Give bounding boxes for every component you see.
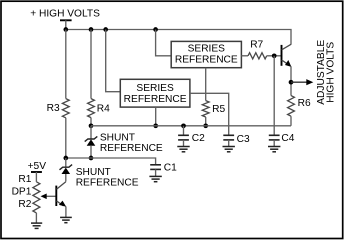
wiper arrow DP1 — [46, 195, 56, 197]
wire bus to series reference 1 — [156, 30, 172, 56]
diode D2 shunt reference — [60, 165, 73, 170]
transistor Q2 — [281, 45, 283, 66]
svg-text:SERIES: SERIES — [188, 43, 226, 54]
node R4-rail — [89, 123, 94, 128]
wire C4 to ground — [273, 140, 275, 146]
wire R7 to base node — [267, 55, 282, 57]
node D1-lower-rail — [89, 156, 94, 161]
wire D1 to lower rail — [90, 146, 92, 158]
svg-text:DP1: DP1 — [12, 186, 32, 197]
node R5-rail — [203, 123, 208, 128]
wire R6 to rail — [290, 116, 292, 126]
node C2-rail — [181, 123, 186, 128]
wire box2 right to C3 — [190, 93, 229, 135]
resistor R7 — [248, 53, 267, 59]
ground C4 — [268, 146, 280, 148]
wire lower rail — [66, 158, 156, 165]
svg-text:REFERENCE: REFERENCE — [100, 143, 163, 154]
node R3-lower-rail — [63, 156, 68, 161]
wire R3 to lower rail — [65, 118, 67, 158]
resistor R6 — [288, 96, 295, 117]
wire base node to C4 — [273, 56, 275, 135]
ground Q1 — [60, 216, 72, 218]
svg-text:+5V: +5V — [28, 161, 47, 172]
box U2 SERIES REFERENCE — [120, 79, 190, 107]
resistor R4 — [88, 99, 95, 118]
potentiometer DP1 body — [33, 182, 40, 213]
svg-text:C4: C4 — [281, 133, 294, 144]
wire C1 to ground — [155, 169, 157, 176]
capacitor C4 — [269, 134, 280, 136]
svg-text:R3: R3 — [47, 103, 60, 114]
arrow adjustable output — [291, 81, 308, 83]
ground C3 — [223, 146, 235, 148]
svg-text:HIGH VOLTS: HIGH VOLTS — [325, 42, 336, 103]
svg-text:REFERENCE: REFERENCE — [76, 178, 139, 189]
svg-text:REFERENCE: REFERENCE — [175, 54, 238, 65]
wire R4 to node — [90, 118, 92, 126]
node box2-rail — [153, 123, 158, 128]
svg-text:C1: C1 — [164, 162, 177, 173]
wire R5 to rail — [205, 117, 207, 126]
node output — [289, 80, 294, 85]
svg-text:+ HIGH VOLTS: + HIGH VOLTS — [30, 8, 100, 19]
resistor R3 — [62, 99, 69, 118]
wire box1 to R5 — [205, 68, 207, 101]
terminal bar + HIGH VOLTS — [60, 19, 72, 21]
node bus-box2 — [103, 27, 108, 32]
wire bus to series reference 2 — [106, 30, 121, 92]
svg-text:SERIES: SERIES — [136, 83, 174, 94]
wire terminal to bus — [65, 20, 67, 29]
wire rail to C2 — [183, 126, 185, 135]
svg-text:R6: R6 — [298, 98, 311, 109]
svg-text:C2: C2 — [192, 133, 205, 144]
wire feedback rail — [91, 125, 291, 127]
wire lower rail to D2 — [65, 158, 67, 167]
svg-text:REFERENCE: REFERENCE — [124, 94, 187, 105]
capacitor C2 — [178, 134, 189, 136]
node bus-box1 — [153, 27, 158, 32]
svg-text:R1: R1 — [18, 174, 31, 185]
capacitor C1 — [150, 164, 161, 166]
transistor Q1 — [55, 186, 57, 206]
wire bus to R3 — [65, 30, 67, 99]
svg-text:R4: R4 — [97, 103, 110, 114]
wire +5V to pot — [35, 172, 37, 182]
capacitor C3 — [223, 134, 234, 136]
terminal bar +5V — [31, 171, 42, 173]
wire C2 to ground — [183, 140, 185, 146]
wire D2 to Q1 collector — [65, 174, 67, 182]
ground C2 — [177, 146, 189, 148]
svg-text:R5: R5 — [212, 104, 225, 115]
wire top bus — [66, 30, 291, 45]
resistor R5 — [202, 101, 209, 117]
svg-text:R7: R7 — [250, 39, 263, 50]
svg-text:R2: R2 — [18, 199, 31, 210]
ground DP1 — [31, 222, 42, 224]
box U1 SERIES REFERENCE — [171, 41, 241, 67]
node bus-R4 — [89, 27, 94, 32]
node bus-R3 — [63, 27, 68, 32]
wire Q2 emitter down — [290, 66, 292, 95]
wire pot to ground — [35, 213, 37, 223]
wire box1 to R7 — [241, 55, 248, 57]
wire C3 to ground — [228, 140, 230, 146]
ground C1 — [149, 175, 161, 177]
diode D1 shunt reference — [85, 136, 98, 141]
wire bus to R4 — [90, 30, 92, 99]
wire box2 output pin — [155, 107, 157, 126]
node base-C4 — [272, 53, 277, 58]
wire Q1 emitter to ground — [65, 206, 67, 217]
svg-text:C3: C3 — [237, 134, 250, 145]
wire node to D1 — [90, 126, 92, 139]
